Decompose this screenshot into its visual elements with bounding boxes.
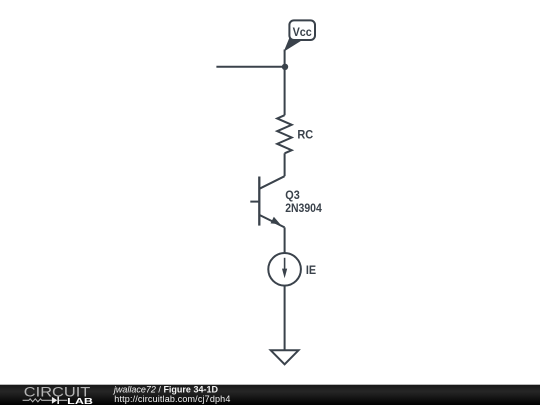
svg-text:LAB: LAB [67,396,93,405]
current source IE [268,253,301,286]
wire (vertical, Vcc tail to resistor top) [284,50,286,116]
wire (horizontal, top left) [216,66,285,68]
wire (current source to ground) [284,286,286,350]
CircuitLab logo [23,384,93,405]
label RC [297,128,313,142]
label Q3 [285,188,300,202]
svg-text:IE: IE [306,263,316,277]
node junction dot [282,64,288,70]
footer title [113,385,219,395]
label IE [306,263,316,277]
label 2N3904 [285,201,322,215]
ground [271,350,299,364]
resistor RC [277,115,292,153]
svg-text:2N3904: 2N3904 [285,201,322,215]
footer bar [0,385,540,405]
svg-text:Q3: Q3 [285,188,300,202]
power flag Vcc [285,20,315,50]
wire (emitter to current source) [284,227,286,253]
footer url [114,394,230,404]
wire (resistor to transistor collector) [284,153,286,176]
transistor Q3 (NPN 2N3904) [250,176,284,227]
svg-text:Vcc: Vcc [293,25,312,39]
svg-text:RC: RC [297,128,313,142]
svg-text:http://circuitlab.com/cj7dph4: http://circuitlab.com/cj7dph4 [114,394,230,404]
